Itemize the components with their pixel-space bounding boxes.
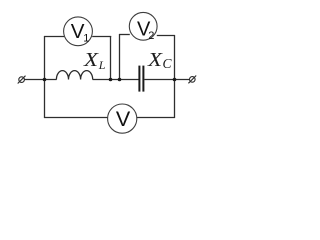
- junction dot V1 right: [109, 78, 113, 82]
- wire: V2 left vertical down to main wire: [119, 34, 121, 80]
- right input terminal: [188, 76, 196, 84]
- wire: main horizontal middle segment (coil to capacitor): [93, 79, 139, 81]
- wire: V box bottom-right horizontal: [137, 117, 175, 119]
- svg-text:1: 1: [83, 33, 89, 45]
- wire: V1 box top-right horizontal: [92, 36, 111, 38]
- wire: main horizontal left segment: [24, 79, 56, 81]
- capacitor XC plates: [138, 66, 140, 92]
- junction dot right: [173, 78, 177, 82]
- svg-text:V: V: [116, 107, 131, 131]
- wire: V box bottom-left horizontal: [44, 117, 108, 119]
- voltmeter V1: [64, 17, 93, 46]
- junction dot V2 left: [118, 78, 122, 82]
- wire: V1 right vertical down to main wire: [110, 36, 112, 80]
- voltmeter V (bottom): [108, 104, 137, 133]
- svg-text:L: L: [98, 58, 106, 72]
- svg-text:X: X: [83, 49, 100, 71]
- svg-text:X: X: [147, 49, 164, 71]
- wire: right vertical (shared by V2 branch and V branch): [174, 35, 176, 118]
- voltmeter V2: [129, 12, 157, 42]
- label XL: [83, 49, 106, 72]
- wire: V1 box top-left horizontal: [44, 36, 64, 38]
- svg-text:2: 2: [148, 30, 154, 42]
- inductor XL coil (3 humps): [56, 71, 92, 80]
- svg-text:C: C: [163, 56, 173, 71]
- wire: left vertical (shared by V1 branch and V branch): [44, 36, 46, 118]
- wire: V2 box top-right horizontal: [157, 35, 175, 37]
- junction dot left: [43, 78, 47, 82]
- wire: main horizontal right segment (capacitor to right terminal): [144, 79, 189, 81]
- left input terminal: [18, 76, 26, 84]
- wire: V2 box top-left horizontal: [119, 34, 130, 36]
- label XC: [147, 49, 173, 71]
